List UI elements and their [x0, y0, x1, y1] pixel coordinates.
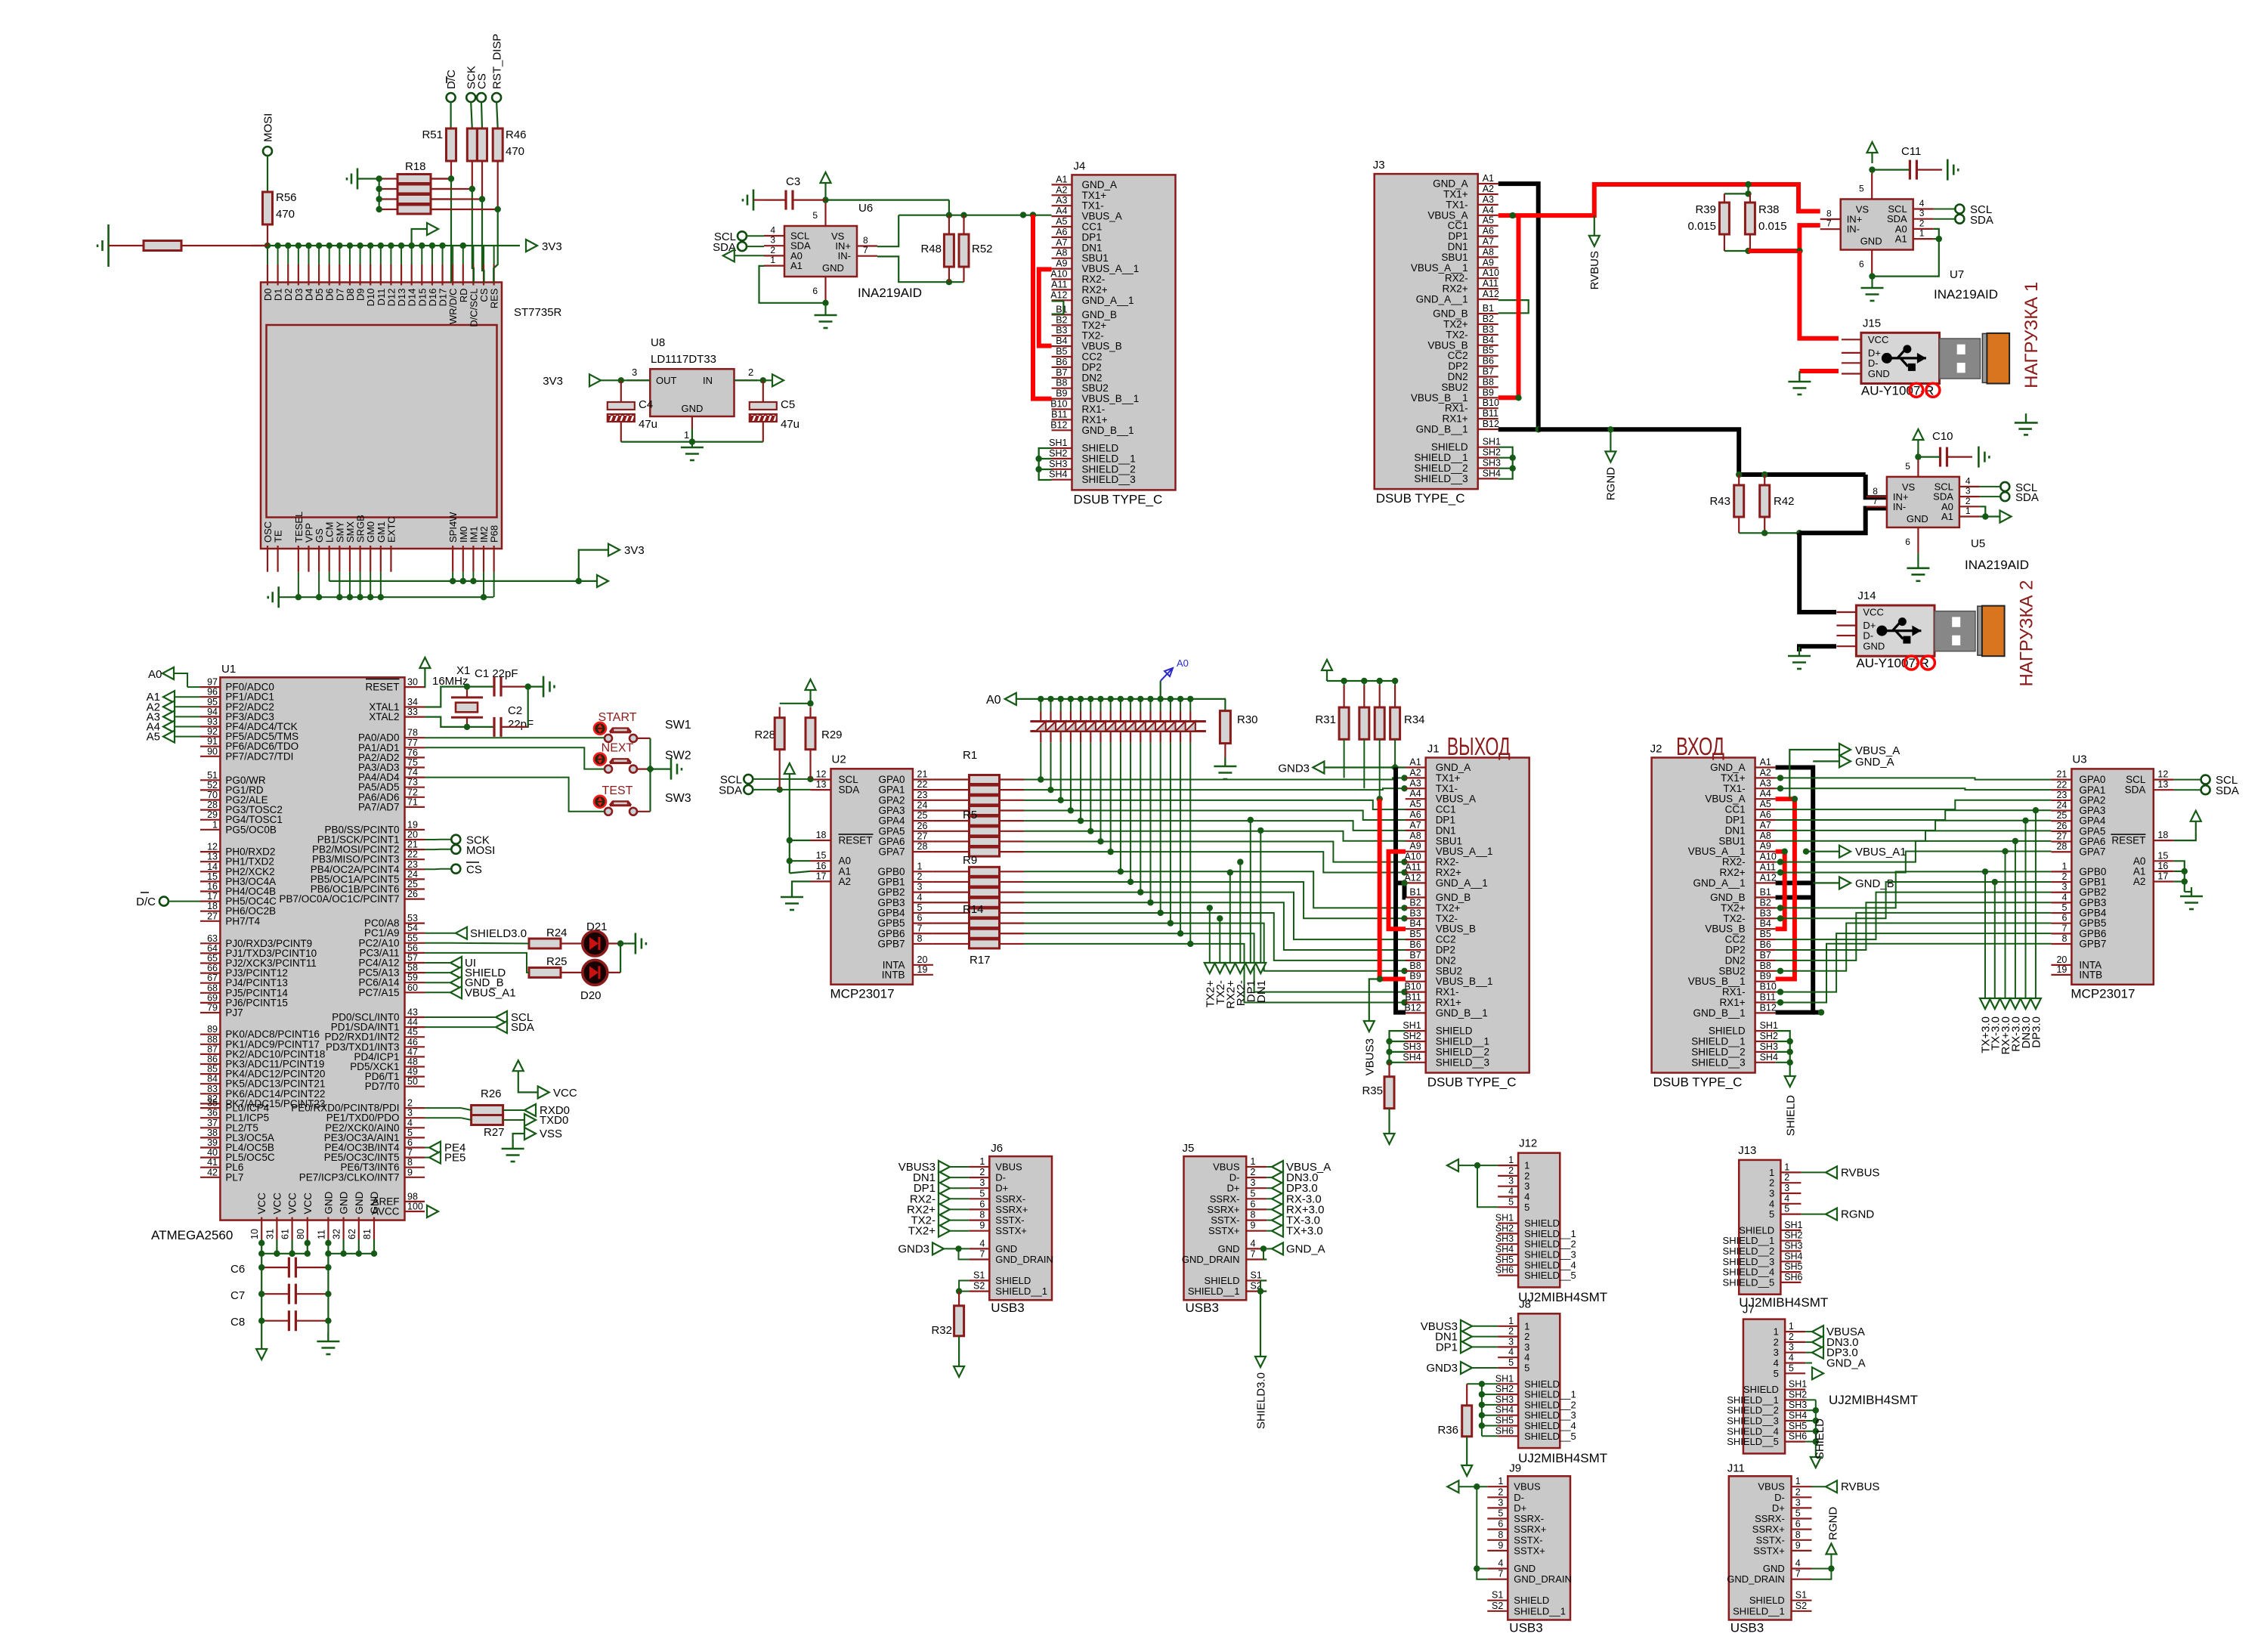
svg-text:D-: D-: [1774, 1492, 1785, 1503]
ground left of rail: [107, 224, 110, 267]
svg-text:1: 1: [1795, 1476, 1801, 1486]
svg-text:62: 62: [347, 1229, 357, 1239]
R18 left common wire: [379, 179, 380, 210]
svg-text:B10: B10: [1050, 399, 1067, 410]
svg-text:DP2: DP2: [1725, 945, 1745, 956]
svg-text:8: 8: [1873, 486, 1878, 497]
svg-text:PH7/T4: PH7/T4: [225, 915, 260, 927]
svg-text:RGND: RGND: [1827, 1507, 1840, 1540]
svg-text:16: 16: [816, 861, 827, 871]
svg-text:9: 9: [1498, 1540, 1503, 1551]
svg-text:SSRX-: SSRX-: [1210, 1193, 1240, 1205]
svg-text:SHIELD: SHIELD: [1785, 1095, 1798, 1136]
svg-text:95: 95: [207, 697, 218, 707]
svg-text:A8: A8: [1409, 831, 1421, 841]
svg-text:R52: R52: [972, 243, 993, 255]
svg-text:A3: A3: [1409, 778, 1421, 788]
resistor (SCK line): [471, 102, 472, 128]
svg-text:GND: GND: [1863, 641, 1885, 652]
svg-text:VBUS_A__1: VBUS_A__1: [1082, 263, 1140, 274]
svg-text:43: 43: [407, 1007, 418, 1018]
VCC flag: [518, 1069, 519, 1081]
svg-text:A1: A1: [1941, 511, 1953, 522]
J6 shield + R32: [959, 1281, 969, 1292]
svg-text:U2: U2: [832, 753, 846, 766]
svg-text:SHIELD__2: SHIELD__2: [1723, 1245, 1775, 1257]
svg-text:GND_B__1: GND_B__1: [1436, 1007, 1488, 1019]
connector J5 USB3: [1184, 1156, 1247, 1300]
svg-text:1: 1: [212, 819, 218, 830]
resistor R48: [944, 234, 954, 267]
svg-text:A8: A8: [1760, 831, 1771, 841]
svg-text:DN1: DN1: [1082, 242, 1103, 253]
svg-text:TX+3.0: TX+3.0: [1286, 1225, 1323, 1238]
svg-text:SSTX+: SSTX+: [995, 1225, 1027, 1236]
svg-text:TX1+: TX1+: [1443, 189, 1468, 200]
svg-text:23: 23: [2056, 790, 2067, 800]
svg-text:SHIELD__1: SHIELD__1: [1733, 1605, 1785, 1616]
svg-text:11: 11: [316, 1230, 326, 1239]
resistor R46 470: [496, 102, 498, 128]
svg-text:A10: A10: [1760, 852, 1777, 862]
svg-text:GND_DRAIN: GND_DRAIN: [1727, 1573, 1785, 1585]
svg-text:J5: J5: [1183, 1142, 1195, 1155]
svg-text:SHIELD__1: SHIELD__1: [1514, 1605, 1566, 1616]
svg-text:B10: B10: [1760, 982, 1777, 992]
black from R43 bottom to U5 IN-: [1799, 509, 1887, 534]
svg-text:MOSI: MOSI: [262, 113, 275, 142]
svg-text:3: 3: [979, 1177, 985, 1188]
svg-text:24: 24: [2056, 800, 2067, 811]
svg-text:78: 78: [407, 728, 418, 738]
U2 wires to pins 12/13: [810, 778, 812, 780]
svg-text:SH2: SH2: [1495, 1384, 1514, 1394]
svg-text:IN-: IN-: [1847, 224, 1860, 235]
svg-text:26: 26: [407, 889, 418, 899]
svg-text:SH4: SH4: [1495, 1405, 1514, 1415]
connector J12 UJ2MIBH4SMT: [1518, 1153, 1560, 1288]
svg-text:A2: A2: [839, 876, 852, 887]
svg-text:6: 6: [1498, 1519, 1503, 1530]
svg-text:J15: J15: [1863, 317, 1881, 329]
svg-text:7: 7: [407, 1147, 413, 1158]
svg-text:RX2+: RX2+: [1719, 867, 1745, 878]
SW common wire: [649, 738, 651, 812]
resistor pack R1..R17: [970, 775, 1000, 784]
svg-text:18: 18: [207, 901, 218, 911]
svg-text:1: 1: [1524, 1320, 1529, 1332]
svg-text:VBUS_A: VBUS_A: [1082, 211, 1122, 222]
svg-text:IN-: IN-: [838, 250, 851, 261]
svg-text:A8: A8: [1483, 246, 1494, 257]
svg-text:RX1-: RX1-: [1445, 403, 1468, 414]
svg-text:SHIELD__2: SHIELD__2: [1524, 1239, 1576, 1250]
svg-text:42: 42: [207, 1167, 218, 1177]
red from shunts to U7 IN-: [1749, 225, 1820, 251]
svg-text:A12: A12: [1483, 289, 1499, 299]
svg-text:R26: R26: [481, 1087, 502, 1100]
svg-text:SW1: SW1: [665, 719, 691, 732]
svg-text:3: 3: [1251, 1177, 1256, 1188]
svg-text:DSUB TYPE_C: DSUB TYPE_C: [1427, 1075, 1517, 1090]
svg-text:A4: A4: [1760, 788, 1771, 799]
svg-text:D-: D-: [1863, 630, 1873, 642]
svg-text:B7: B7: [1483, 367, 1494, 377]
display bottom pins: [267, 546, 268, 572]
svg-text:6: 6: [2061, 913, 2067, 923]
svg-text:R5: R5: [963, 809, 977, 821]
svg-text:TX2-: TX2-: [1723, 913, 1745, 924]
R18 right connections: [431, 178, 451, 179]
svg-text:16: 16: [2157, 861, 2168, 871]
svg-text:1: 1: [1251, 1156, 1256, 1167]
svg-text:27: 27: [2056, 831, 2067, 842]
svg-text:J7: J7: [1743, 1304, 1755, 1316]
svg-text:R46: R46: [506, 128, 527, 141]
svg-text:6: 6: [917, 913, 923, 923]
svg-text:TX1-: TX1-: [1723, 783, 1745, 794]
svg-text:37: 37: [207, 1118, 218, 1128]
svg-text:USB3: USB3: [1186, 1301, 1219, 1315]
svg-text:C3: C3: [786, 175, 800, 188]
svg-text:A10: A10: [1483, 268, 1499, 278]
svg-text:A5: A5: [1760, 799, 1771, 809]
svg-text:SHIELD__3: SHIELD__3: [1691, 1056, 1745, 1068]
svg-text:4: 4: [1524, 1191, 1529, 1202]
svg-text:2: 2: [1789, 1332, 1794, 1342]
svg-text:7: 7: [1795, 1569, 1801, 1579]
svg-text:19: 19: [2056, 964, 2067, 975]
svg-text:26: 26: [2056, 821, 2067, 831]
svg-text:R43: R43: [1709, 495, 1730, 508]
svg-text:J1: J1: [1427, 743, 1440, 756]
svg-text:SHIELD__3: SHIELD__3: [1436, 1056, 1489, 1068]
svg-text:GND_DRAIN: GND_DRAIN: [995, 1254, 1053, 1265]
A0 flag U6: [723, 249, 735, 261]
svg-text:8: 8: [407, 1157, 413, 1168]
svg-text:A1: A1: [790, 260, 803, 271]
svg-text:A4: A4: [1409, 788, 1421, 799]
svg-text:A7: A7: [1056, 237, 1067, 248]
svg-text:TX1+: TX1+: [1436, 772, 1461, 784]
svg-text:A11: A11: [1760, 862, 1776, 873]
svg-text:VBUS_A1: VBUS_A1: [465, 986, 516, 999]
svg-text:A0: A0: [986, 694, 1001, 707]
svg-text:CC1: CC1: [1725, 804, 1746, 815]
svg-text:НАГРУЗКА 2: НАГРУЗКА 2: [2016, 580, 2037, 686]
svg-text:DN2: DN2: [1448, 371, 1468, 382]
svg-text:INA219AID: INA219AID: [1934, 287, 1998, 302]
svg-text:SHIELD: SHIELD: [1436, 1026, 1473, 1037]
svg-text:SDA: SDA: [839, 784, 860, 796]
svg-text:7: 7: [863, 245, 868, 255]
svg-text:SH6: SH6: [1784, 1272, 1802, 1282]
svg-text:A4: A4: [1056, 206, 1067, 216]
svg-text:R56: R56: [276, 191, 297, 204]
svg-text:A1: A1: [1483, 173, 1494, 184]
svg-text:12: 12: [2157, 769, 2168, 780]
svg-text:93: 93: [207, 716, 218, 727]
3V3 flag bottom right: [579, 550, 608, 581]
GND_A flag J5: [1266, 1248, 1272, 1249]
svg-text:R51: R51: [422, 128, 443, 141]
svg-text:DP2: DP2: [1436, 945, 1455, 956]
svg-text:4: 4: [2061, 892, 2067, 902]
svg-text:36: 36: [207, 1108, 218, 1118]
svg-text:SH1: SH1: [1760, 1020, 1778, 1031]
svg-text:SHIELD: SHIELD: [995, 1275, 1031, 1286]
J3 black RGND wire to R43/R42: [1539, 429, 1866, 475]
svg-text:B5: B5: [1056, 346, 1067, 357]
svg-text:S1: S1: [1492, 1590, 1503, 1601]
connector J11 USB3: [1729, 1476, 1792, 1620]
svg-text:R28: R28: [754, 729, 775, 741]
svg-text:PA7/AD7: PA7/AD7: [358, 801, 400, 812]
svg-text:SSRX+: SSRX+: [1514, 1524, 1546, 1535]
svg-text:B4: B4: [1483, 335, 1494, 345]
A1 wire U6: [759, 266, 826, 303]
red down to J15 VCC: [1799, 251, 1839, 339]
svg-text:17: 17: [816, 871, 827, 881]
svg-text:B7: B7: [1409, 950, 1421, 961]
svg-text:B3: B3: [1056, 325, 1067, 336]
GND3 flag at J1 A1: [1324, 766, 1406, 768]
svg-text:470: 470: [276, 208, 295, 221]
svg-text:B11: B11: [1405, 992, 1421, 1003]
svg-text:A3: A3: [1760, 778, 1771, 788]
svg-text:GND: GND: [822, 262, 844, 274]
J11 RVBUS flag: [1812, 1486, 1826, 1487]
svg-text:1: 1: [1508, 1316, 1514, 1326]
J4 red vbus jumpers: [1033, 217, 1052, 398]
svg-text:56: 56: [407, 942, 418, 953]
U5 GND: [1917, 553, 1919, 560]
U5 SCL/SDA terminals: [2000, 482, 2009, 491]
svg-text:5: 5: [917, 902, 923, 913]
svg-text:B2: B2: [1409, 897, 1421, 908]
svg-text:R27: R27: [484, 1126, 505, 1139]
svg-text:GPA7: GPA7: [878, 846, 905, 858]
svg-text:4: 4: [770, 225, 775, 236]
svg-text:TX2+: TX2+: [908, 1225, 936, 1238]
svg-text:3V3: 3V3: [542, 240, 562, 253]
svg-text:GND_A: GND_A: [1082, 179, 1118, 190]
svg-text:5: 5: [812, 210, 818, 221]
svg-text:23: 23: [917, 790, 928, 800]
svg-text:26: 26: [917, 821, 928, 831]
J3 black GND_A wire: [1498, 184, 1539, 429]
svg-text:1: 1: [1789, 1321, 1794, 1332]
svg-text:63: 63: [207, 933, 218, 944]
svg-text:21: 21: [407, 840, 418, 850]
svg-text:A7: A7: [1409, 820, 1421, 831]
U8 gnd wire: [621, 441, 763, 442]
svg-text:52: 52: [207, 780, 218, 790]
svg-text:470: 470: [506, 145, 524, 158]
svg-text:A10: A10: [1050, 269, 1067, 280]
svg-text:9: 9: [1251, 1220, 1256, 1231]
J1 black gnd bracket: [1396, 768, 1406, 1013]
RESET wire to power: [424, 679, 426, 687]
svg-text:20: 20: [917, 954, 928, 965]
RST line down: [497, 161, 499, 209]
svg-text:SHIELD: SHIELD: [1524, 1217, 1560, 1229]
svg-text:TX1-: TX1-: [1446, 199, 1468, 210]
svg-text:9: 9: [407, 1167, 413, 1177]
black top to U5 IN+: [1866, 475, 1887, 497]
svg-text:3: 3: [1769, 1188, 1774, 1199]
svg-text:C11: C11: [1901, 145, 1921, 158]
U1 bottom power pins: [261, 1217, 262, 1239]
svg-text:MCP23017: MCP23017: [2071, 986, 2135, 1001]
svg-text:A11: A11: [1483, 278, 1498, 289]
svg-text:15: 15: [816, 850, 827, 861]
svg-text:J14: J14: [1857, 589, 1876, 602]
svg-text:6: 6: [1859, 259, 1864, 270]
J13 RVBUS flag: [1801, 1171, 1826, 1173]
U1 GND bottom net: [327, 1239, 329, 1254]
svg-text:49: 49: [407, 1066, 418, 1077]
svg-text:1: 1: [1774, 1326, 1779, 1338]
svg-text:3: 3: [1524, 1341, 1529, 1353]
svg-text:7: 7: [1873, 496, 1878, 506]
svg-text:SH2: SH2: [1403, 1031, 1421, 1041]
svg-text:D+: D+: [995, 1183, 1008, 1194]
J9 left bracket: [1474, 1483, 1480, 1490]
svg-text:DSUB TYPE_C: DSUB TYPE_C: [1376, 491, 1465, 506]
op-chip U5 INA219AID: [1887, 477, 1959, 527]
svg-text:SHIELD: SHIELD: [1709, 1026, 1746, 1037]
svg-text:SH1: SH1: [1483, 437, 1501, 447]
svg-text:SBU2: SBU2: [1436, 965, 1462, 976]
svg-text:SSTX+: SSTX+: [1753, 1545, 1785, 1556]
svg-text:22pF: 22pF: [508, 718, 534, 731]
svg-text:SHIELD__5: SHIELD__5: [1723, 1276, 1775, 1288]
svg-text:IN: IN: [703, 375, 713, 386]
svg-text:SH3: SH3: [1784, 1241, 1802, 1251]
svg-text:4: 4: [1251, 1238, 1256, 1248]
op-chip U6 INA219AID: [784, 226, 857, 277]
svg-text:J9: J9: [1509, 1462, 1521, 1474]
svg-text:CC1: CC1: [1436, 804, 1456, 815]
svg-text:72: 72: [407, 787, 418, 797]
svg-text:B3: B3: [1760, 908, 1771, 918]
svg-text:B9: B9: [1409, 971, 1421, 982]
svg-text:5: 5: [407, 1128, 413, 1138]
VSS flag: [513, 1134, 524, 1149]
svg-text:1: 1: [1524, 1160, 1529, 1171]
svg-text:DN2: DN2: [1725, 954, 1746, 966]
svg-text:64: 64: [207, 943, 218, 954]
svg-text:2: 2: [1774, 1336, 1779, 1347]
svg-text:PC7/A15: PC7/A15: [358, 987, 399, 998]
svg-text:C8: C8: [230, 1316, 245, 1329]
resistor R52: [959, 234, 969, 267]
svg-text:SDA: SDA: [719, 784, 742, 797]
svg-text:TX1-: TX1-: [1436, 783, 1458, 794]
svg-text:VBUS_A: VBUS_A: [1436, 794, 1476, 805]
svg-text:2: 2: [1784, 1172, 1789, 1183]
svg-text:GND_A__1: GND_A__1: [1436, 877, 1488, 889]
svg-text:C5: C5: [781, 398, 795, 411]
svg-text:PJ7: PJ7: [225, 1007, 243, 1019]
svg-text:J12: J12: [1519, 1137, 1537, 1150]
svg-text:VBUS: VBUS: [1213, 1162, 1240, 1173]
UI/SHIELD/GND_B/VBUS_A1 flags: [425, 962, 453, 964]
svg-text:ВХОД: ВХОД: [1676, 732, 1724, 760]
svg-text:GND_DRAIN: GND_DRAIN: [1182, 1254, 1240, 1265]
svg-text:3: 3: [407, 1108, 413, 1118]
svg-text:A5: A5: [1409, 799, 1421, 809]
svg-text:SBU2: SBU2: [1082, 382, 1109, 394]
svg-text:1: 1: [1784, 1162, 1789, 1172]
svg-text:88: 88: [207, 1034, 218, 1044]
resistors R43 R42: [1736, 472, 1742, 478]
U7 A0/A1 to gnd: [1934, 229, 1939, 239]
svg-text:R39: R39: [1695, 203, 1716, 216]
svg-text:44: 44: [407, 1017, 418, 1028]
svg-text:A0: A0: [1177, 657, 1189, 669]
svg-text:A7: A7: [1483, 237, 1494, 247]
svg-text:VBUS_A__1: VBUS_A__1: [1411, 262, 1468, 274]
svg-text:SH4: SH4: [1789, 1410, 1807, 1421]
svg-text:GND: GND: [995, 1243, 1017, 1254]
right side flag of U8: [735, 379, 773, 381]
svg-text:VBUS_B__1: VBUS_B__1: [1411, 392, 1468, 404]
svg-text:DP1: DP1: [1082, 231, 1102, 243]
svg-text:GND_B: GND_B: [1082, 309, 1118, 320]
usb connector J15 AU-Y1007-R: [1861, 333, 1940, 383]
svg-text:DP1: DP1: [1448, 230, 1468, 242]
3V3 rail above display: [251, 245, 520, 246]
J2 top flags: [1789, 750, 1839, 799]
svg-text:U5: U5: [1971, 537, 1985, 550]
svg-text:73: 73: [407, 777, 418, 787]
svg-text:B7: B7: [1056, 367, 1067, 378]
display top pins D0..RES: [267, 265, 268, 286]
svg-text:3: 3: [1524, 1180, 1529, 1192]
svg-text:2: 2: [1965, 496, 1971, 506]
svg-text:4: 4: [1774, 1357, 1779, 1369]
svg-text:SBU1: SBU1: [1718, 835, 1745, 846]
svg-text:RX1+: RX1+: [1082, 414, 1108, 425]
svg-text:R30: R30: [1237, 713, 1258, 726]
svg-text:15: 15: [207, 871, 218, 882]
svg-text:B5: B5: [1409, 929, 1421, 939]
svg-text:5: 5: [1508, 1357, 1514, 1368]
svg-text:SH4: SH4: [1495, 1244, 1514, 1254]
svg-text:3: 3: [1508, 1336, 1514, 1347]
svg-text:0.015: 0.015: [1687, 220, 1716, 233]
svg-text:USB3: USB3: [991, 1301, 1024, 1315]
svg-text:B6: B6: [1483, 356, 1494, 367]
svg-text:SH1: SH1: [1789, 1379, 1807, 1390]
svg-text:SSRX-: SSRX-: [1514, 1513, 1544, 1524]
svg-text:D-: D-: [1229, 1172, 1240, 1183]
svg-text:A2: A2: [1409, 767, 1421, 778]
TX+3.0 etc drop flags: [1984, 871, 1986, 998]
svg-text:RX2-: RX2-: [1436, 856, 1459, 868]
svg-text:5: 5: [1859, 184, 1864, 194]
SCL/SDA terminals left: [744, 775, 753, 784]
svg-text:21: 21: [917, 769, 928, 780]
svg-text:5: 5: [2061, 902, 2067, 913]
svg-text:100: 100: [407, 1202, 423, 1212]
svg-text:TX2+: TX2+: [1082, 320, 1107, 331]
op-chip U7 INA219AID: [1841, 200, 1913, 250]
svg-text:92: 92: [207, 726, 218, 737]
svg-text:24: 24: [917, 800, 928, 810]
